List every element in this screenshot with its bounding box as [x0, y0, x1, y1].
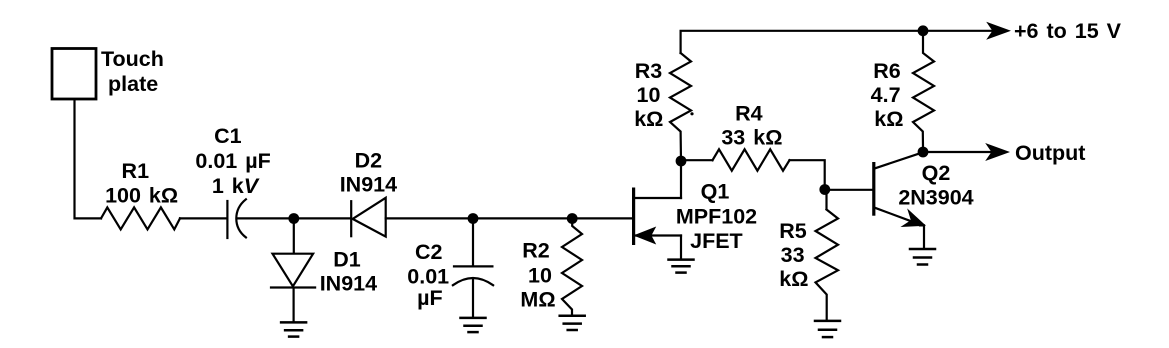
node C (R2 junction) [567, 213, 578, 224]
speck artifact [690, 112, 693, 115]
diode D2 [351, 198, 386, 237]
label: C1 0.01 uF 1 kV [195, 124, 270, 198]
ground (R2) [560, 316, 585, 330]
wire: C2 to ground [472, 279, 474, 317]
wire: touch plate down and to R1 [75, 100, 102, 218]
touch plate [52, 49, 96, 100]
svg-text:µF: µF [417, 286, 443, 310]
svg-text:4.7: 4.7 [871, 83, 901, 107]
label: R6 4.7 kOhm [871, 59, 904, 131]
capacitor C2 [453, 266, 493, 285]
svg-text:MPF102: MPF102 [676, 204, 757, 228]
svg-text:C1: C1 [214, 124, 242, 148]
svg-text:IN914: IN914 [320, 272, 377, 296]
node G (collector/output junction) [918, 147, 929, 158]
label: R2 10 MOhm [520, 239, 555, 312]
svg-text:R1: R1 [122, 159, 150, 183]
svg-text:1 kV: 1 kV [212, 174, 260, 198]
svg-text:0.01: 0.01 [407, 264, 449, 288]
resistor R3 [670, 53, 691, 161]
resistor R4 [713, 149, 790, 170]
resistor R2 [562, 219, 582, 315]
svg-text:JFET: JFET [690, 229, 743, 253]
ground (D1) [281, 322, 306, 336]
wire: Q1 source down to ground [680, 236, 682, 259]
svg-text:33: 33 [781, 243, 805, 267]
power rail arrowhead [988, 23, 1010, 39]
svg-text:kΩ: kΩ [779, 267, 808, 291]
wire: node D to R4 [681, 159, 713, 161]
svg-text:IN914: IN914 [340, 173, 397, 197]
svg-text:C2: C2 [415, 240, 443, 264]
svg-text:+6 to 15 V: +6 to 15 V [1014, 19, 1122, 43]
svg-text:Output: Output [1015, 141, 1085, 165]
svg-text:R6: R6 [873, 59, 901, 83]
wire: R4 to node F [790, 160, 825, 185]
transistor Q1 (JFET) [634, 188, 681, 246]
label: C2 0.01 uF [407, 240, 449, 310]
svg-text:kΩ: kΩ [634, 107, 663, 131]
capacitor C1 [227, 199, 246, 238]
label: R4 33 kOhm [721, 101, 782, 149]
svg-text:2N3904: 2N3904 [898, 185, 973, 209]
wire: Q1 drain up to node D [680, 165, 682, 198]
diode D1 [271, 254, 315, 288]
svg-text:10: 10 [637, 83, 661, 107]
label: R3 10 kOhm [634, 59, 663, 131]
resistor R5 [816, 210, 839, 321]
transistor Q2 (2N3904) [874, 153, 924, 247]
wire: node F down to R5 [825, 190, 827, 210]
node A (C1/D1/D2 junction) [288, 213, 299, 224]
resistor R6 [913, 31, 934, 147]
wire: output [923, 151, 991, 153]
wire: node A down to D1 [293, 219, 295, 254]
svg-text:MΩ: MΩ [520, 288, 555, 312]
node D (R3/drain/R4 junction) [676, 156, 687, 167]
output arrowhead [987, 144, 1009, 160]
node E (rail/R6 junction) [918, 25, 929, 36]
ground (C2) [461, 318, 486, 332]
wire: D2 to node B [386, 217, 469, 219]
svg-text:33 kΩ: 33 kΩ [721, 126, 782, 150]
label: D1 IN914 [320, 247, 377, 295]
label: Touch plate [101, 47, 164, 96]
svg-text:0.01 µF: 0.01 µF [195, 149, 270, 173]
ground (R5) [815, 321, 840, 337]
svg-text:D2: D2 [355, 148, 383, 172]
label: R5 33 kOhm [779, 219, 808, 291]
power rail wire [681, 31, 992, 53]
svg-text:R5: R5 [779, 219, 807, 243]
wire: node C to Q1 gate [572, 217, 632, 219]
node B (C2 junction) [468, 213, 479, 224]
wire: D1 to ground [293, 288, 295, 322]
svg-text:100 kΩ: 100 kΩ [105, 183, 178, 207]
label: Q1 MPF102 JFET [676, 180, 757, 254]
resistor R1 [101, 207, 180, 229]
svg-text:D1: D1 [333, 247, 361, 271]
svg-text:10: 10 [528, 264, 552, 288]
wire: node B to node C [473, 217, 568, 219]
ground (Q1 source) [669, 260, 694, 273]
wire: node B down to C2 [472, 219, 474, 266]
ground (Q2 emitter) [910, 249, 935, 265]
svg-text:Q2: Q2 [922, 161, 951, 185]
svg-text:kΩ: kΩ [874, 107, 903, 131]
svg-text:Touch: Touch [101, 47, 164, 71]
svg-text:Q1: Q1 [701, 180, 730, 204]
wire: node A to D2 [294, 217, 351, 219]
svg-text:R3: R3 [635, 59, 663, 83]
wire: node F to Q2 base [825, 189, 872, 191]
svg-text:R4: R4 [735, 101, 763, 125]
wire: C1 to node A [238, 217, 290, 219]
node F (base junction) [819, 184, 830, 195]
label: R1 100 kOhm [105, 159, 178, 208]
label: Q2 2N3904 [898, 161, 973, 210]
label: D2 IN914 [340, 148, 397, 196]
svg-text:R2: R2 [522, 239, 550, 263]
svg-text:plate: plate [108, 72, 158, 96]
wire: R1 to C1 [180, 217, 226, 219]
